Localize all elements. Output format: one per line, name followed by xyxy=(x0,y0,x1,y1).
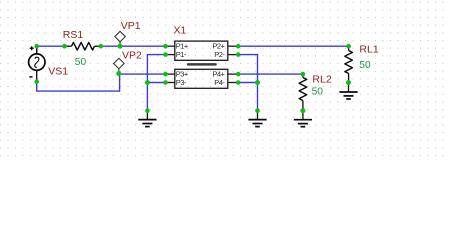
svg-text:X1: X1 xyxy=(174,25,187,37)
svg-text:50: 50 xyxy=(359,60,371,71)
svg-text:P4-: P4- xyxy=(214,78,225,87)
ground G1 (under P1-/P3- vertical A) xyxy=(138,111,156,127)
junction dot P3- pin xyxy=(163,80,168,85)
svg-text:RS1: RS1 xyxy=(63,29,84,41)
wire: P2- pin right then down vertical B to ground G2 xyxy=(238,55,257,111)
probe VP1 xyxy=(115,20,141,46)
junction dot P1- pin xyxy=(163,52,168,57)
ground G3 (under RL2) xyxy=(294,111,312,127)
junction dot VP2 xyxy=(116,71,121,76)
junction dot P1+ pin xyxy=(163,44,168,49)
resistor RS1 xyxy=(63,29,101,68)
probe VP2 xyxy=(114,50,142,74)
junction dot RS1 right xyxy=(99,44,104,49)
wire: RS1 right pin to P1+ pin xyxy=(101,45,166,47)
ground G2 (under P2-/P4- vertical B) xyxy=(248,111,266,127)
svg-text:P2-: P2- xyxy=(214,50,225,59)
junction dot P2- pin xyxy=(236,52,241,57)
junction dot P3+ pin xyxy=(163,72,168,77)
background grid xyxy=(0,0,450,162)
svg-text:50: 50 xyxy=(312,86,324,97)
svg-text:RL2: RL2 xyxy=(312,73,331,85)
junction dot ground G2 xyxy=(255,108,260,113)
junction dot vertical B joins P4- xyxy=(255,80,260,85)
junction dot VS1 top xyxy=(34,44,39,49)
junction dot RL2 bottom xyxy=(300,108,305,113)
wire: P1- pin left then down vertical A to ground G1 xyxy=(147,55,165,111)
junction dot ground G1 xyxy=(145,108,150,113)
junction dot RL1 bottom xyxy=(346,80,351,85)
junction dot VS1 bottom xyxy=(34,79,39,84)
subcircuit X1 box bottom (ports P3/P4) xyxy=(166,69,239,88)
resistor RL1 xyxy=(345,44,379,83)
svg-text:VS1: VS1 xyxy=(48,66,68,78)
junction dot RL2 top xyxy=(301,72,306,77)
junction dot vertical A joins P3- xyxy=(145,80,150,85)
svg-text:P3-: P3- xyxy=(176,78,187,87)
svg-text:P1-: P1- xyxy=(176,50,187,59)
wire: VS1 top up and right to RS1 left pin xyxy=(37,46,65,55)
ground G4 (under RL1) xyxy=(339,83,357,100)
svg-text:VP1: VP1 xyxy=(121,20,141,32)
svg-text:VP2: VP2 xyxy=(122,50,142,62)
junction dot P4+ pin xyxy=(236,72,241,77)
svg-text:50: 50 xyxy=(75,57,87,68)
junction dot P4- pin xyxy=(236,80,241,85)
junction dot VP1 xyxy=(118,44,123,49)
wire: P2+ pin right to RL1 top xyxy=(238,45,348,47)
source VS1 xyxy=(29,46,69,81)
junction dot RS1 left xyxy=(62,44,67,49)
resistor RL2 xyxy=(299,73,332,110)
wire: P4+ pin right to RL2 top xyxy=(238,73,303,75)
wire: VS1 bottom down, right, up at VP2, right to P3+ pin xyxy=(37,74,166,91)
wire: P3- pin stub to vertical A junction xyxy=(147,82,165,84)
junction dot RL1 top xyxy=(346,44,351,49)
wire: P4- pin stub to vertical B junction xyxy=(238,82,257,84)
subcircuit X1 middle bar xyxy=(187,63,217,66)
subcircuit X1 box top (ports P1/P2) xyxy=(166,41,239,60)
svg-text:RL1: RL1 xyxy=(359,44,378,56)
junction dot P2+ pin xyxy=(236,44,241,49)
